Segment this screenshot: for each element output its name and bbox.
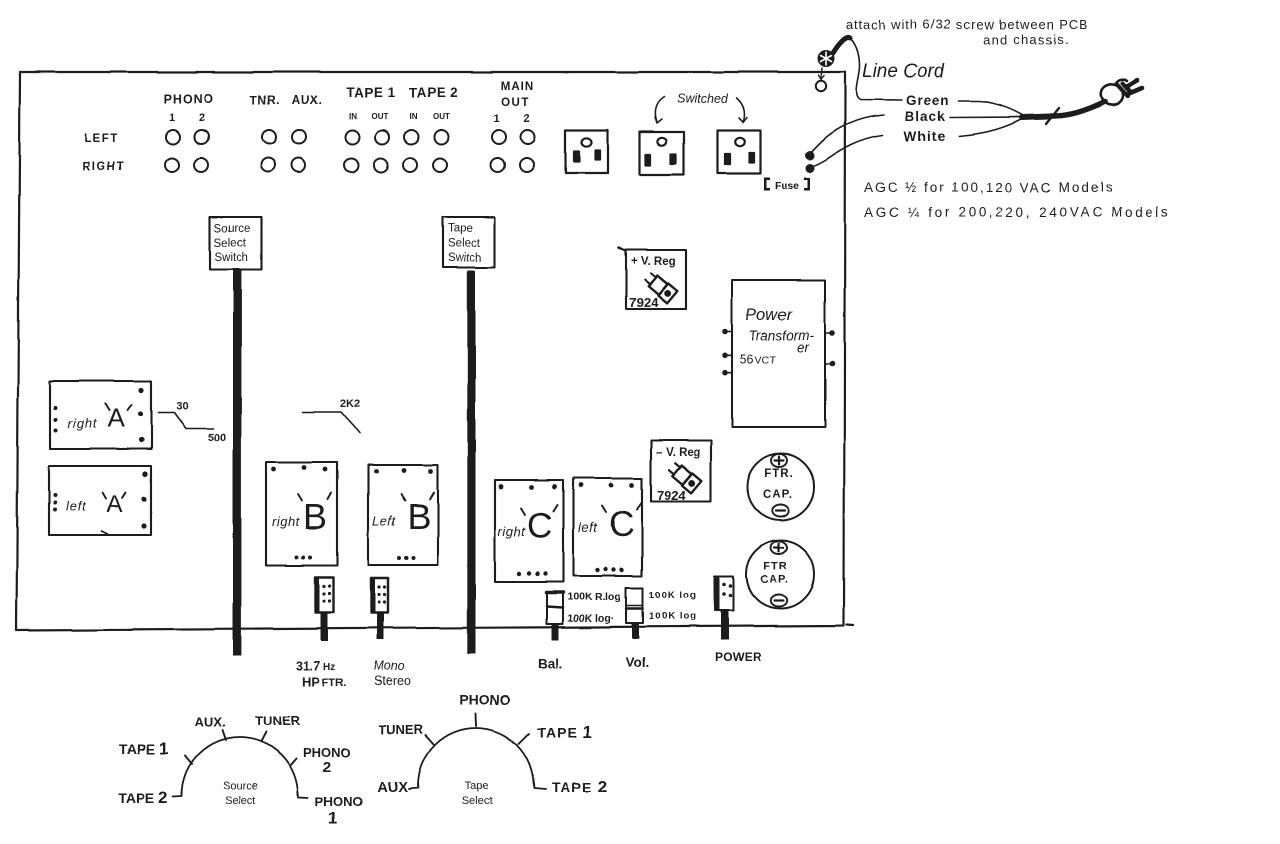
resistor 2K2 jumper: [303, 412, 360, 433]
tape dial tick TAPE 1: [519, 734, 529, 744]
svg-text:Fuse: Fuse: [775, 180, 800, 192]
green wire to cord junction: [959, 101, 1024, 116]
svg-text:IN: IN: [349, 112, 357, 121]
svg-text:TAPE 1: TAPE 1: [346, 85, 395, 100]
terminal dot upper (black wire): [805, 151, 814, 160]
source dial labels: [118, 713, 362, 828]
balance pot: [546, 592, 563, 624]
svg-text:right: right: [68, 416, 98, 431]
PCB right A: [50, 381, 151, 449]
balance pot shaft: [552, 624, 559, 640]
jack label AUX.: [292, 93, 323, 107]
tape select dial arc: [418, 728, 534, 786]
svg-text:TAPE 2: TAPE 2: [408, 85, 457, 100]
svg-text:AUX.: AUX.: [194, 714, 225, 729]
Switched label and arrows: [677, 92, 729, 106]
svg-text:Source: Source: [214, 223, 250, 235]
svg-text:FTR: FTR: [764, 561, 788, 573]
svg-text:– V. Reg: – V. Reg: [656, 447, 700, 459]
wire label White: [904, 129, 946, 144]
AC outlet 2 (switched): [640, 132, 685, 175]
svg-text:MAIN: MAIN: [501, 81, 534, 93]
PCB left A: [49, 466, 151, 535]
svg-text:+ V. Reg: + V. Reg: [631, 256, 676, 268]
svg-text:attach with 6/32 screw between: attach with 6/32 screw between PCB: [846, 17, 1088, 32]
filter capacitor 1: [747, 454, 814, 521]
svg-text:Black: Black: [905, 109, 946, 124]
svg-text:FTR.: FTR.: [322, 677, 346, 689]
source select shaft: [233, 270, 241, 656]
jack label TAPE1: [346, 85, 395, 121]
svg-text:100K log: 100K log: [649, 590, 697, 601]
source dial tick TAPE 1: [186, 756, 193, 765]
svg-text:A: A: [107, 403, 125, 433]
svg-text:TUNER: TUNER: [378, 722, 423, 737]
svg-text:and chassis.: and chassis.: [983, 32, 1070, 47]
svg-text:1: 1: [328, 809, 337, 828]
svg-text:OUT: OUT: [433, 112, 450, 121]
svg-text:PHONO: PHONO: [303, 745, 351, 760]
svg-text:White: White: [904, 129, 946, 144]
svg-text:AUX: AUX: [377, 780, 408, 796]
svg-text:Mono: Mono: [373, 659, 404, 673]
balance pot labels: [538, 591, 621, 671]
source select switch box: [210, 217, 262, 270]
svg-text:1: 1: [169, 112, 175, 124]
svg-text:500: 500: [208, 432, 226, 444]
svg-text:Switch: Switch: [448, 253, 482, 265]
wire label Black: [905, 109, 946, 124]
black wire to terminal: [810, 115, 885, 154]
svg-text:7924: 7924: [629, 295, 659, 310]
power switch: [715, 577, 734, 611]
fuse label: [764, 178, 810, 193]
PCB left C: [573, 478, 642, 576]
svg-text:2: 2: [524, 113, 530, 125]
jack label TNR.: [250, 93, 280, 107]
svg-text:TAPE 1: TAPE 1: [537, 723, 593, 742]
svg-text:left: left: [66, 499, 87, 514]
svg-text:OUT: OUT: [502, 97, 531, 109]
svg-text:FTR.: FTR.: [764, 468, 794, 480]
svg-text:RIGHT: RIGHT: [82, 161, 125, 173]
source dial tick AUX: [223, 730, 227, 740]
svg-text:right: right: [498, 524, 527, 539]
source select dial arc: [182, 737, 298, 795]
AC plug: [1101, 80, 1142, 105]
svg-text:IN: IN: [409, 112, 417, 121]
mono/stereo shaft: [377, 613, 384, 640]
svg-text:Tape: Tape: [465, 780, 489, 792]
jack label PHONO: [164, 92, 215, 124]
regulator symbol (TO-220): [643, 271, 678, 304]
PCB right C: [495, 480, 563, 582]
svg-text:er: er: [797, 340, 810, 355]
cord break slash: [1046, 108, 1059, 124]
AC outlet 3 (switched): [718, 131, 761, 174]
HP filter shaft: [321, 613, 328, 642]
black wire to cord junction: [950, 116, 1024, 119]
svg-text:AGC ¼ for 200,220, 240VAC Mode: AGC ¼ for 200,220, 240VAC Models: [864, 205, 1171, 220]
row label RIGHT: [82, 161, 125, 173]
svg-text:100K log: 100K log: [649, 611, 697, 622]
HP filter slide switch: [316, 577, 334, 613]
Line Cord label: [862, 61, 946, 82]
svg-text:PHONO: PHONO: [315, 794, 363, 809]
HP filter label: [296, 659, 346, 689]
svg-text:2: 2: [323, 759, 331, 776]
mounting pad hole: [816, 81, 826, 91]
cord junction: [1022, 117, 1049, 118]
svg-text:Switch: Switch: [215, 252, 249, 264]
PCB left B: [368, 465, 438, 565]
svg-text:2: 2: [199, 112, 205, 124]
fuse note AGC line 2: [864, 205, 1171, 220]
regulator symbol (TO-220): [667, 461, 702, 494]
svg-text:C: C: [527, 507, 552, 546]
svg-text:Source: Source: [223, 780, 258, 792]
AC outlet 1: [565, 131, 608, 174]
transformer pins right: [825, 333, 831, 364]
arrow screw to pad: [819, 68, 825, 80]
svg-text:CAP.: CAP.: [761, 574, 790, 586]
transformer pins left: [726, 332, 732, 373]
svg-text:right: right: [272, 514, 301, 529]
volume pot shaft: [632, 623, 639, 639]
svg-text:Select: Select: [448, 238, 481, 250]
source dial tick TUNER: [262, 732, 267, 742]
jack label MAIN OUT: [494, 81, 535, 125]
svg-text:Vol.: Vol.: [625, 655, 649, 670]
svg-text:TUNER: TUNER: [256, 713, 301, 728]
svg-text:Switched: Switched: [677, 92, 729, 106]
svg-text:Green: Green: [906, 93, 950, 108]
svg-text:56: 56: [740, 352, 754, 366]
tape dial tick TUNER: [426, 736, 435, 746]
svg-text:B: B: [303, 496, 327, 537]
svg-text:HP: HP: [302, 674, 320, 689]
resistor 30/500 jumper: [158, 412, 213, 429]
chassis outline: [17, 72, 854, 631]
chassis screw: [818, 50, 835, 67]
svg-text:7924: 7924: [657, 488, 687, 503]
svg-text:31.7: 31.7: [296, 659, 320, 673]
svg-text:TAPE 1: TAPE 1: [119, 739, 169, 758]
svg-text:LEFT: LEFT: [84, 133, 119, 145]
svg-text:B: B: [407, 496, 431, 537]
svg-text:A: A: [107, 491, 123, 518]
line cord cable: [1051, 102, 1105, 117]
power label: [715, 650, 761, 664]
svg-text:Select: Select: [462, 795, 493, 807]
jack label TAPE2: [408, 85, 457, 121]
svg-text:left: left: [578, 520, 598, 535]
svg-text:POWER: POWER: [715, 650, 761, 664]
tape select switch box: [443, 217, 495, 268]
svg-text:TAPE 2: TAPE 2: [552, 777, 608, 796]
svg-text:OUT: OUT: [372, 112, 389, 121]
source dial tick PHONO 2: [290, 758, 297, 766]
power switch shaft: [721, 611, 729, 641]
positive voltage regulator box: [619, 248, 686, 311]
svg-text:CAP.: CAP.: [763, 489, 793, 501]
svg-text:Tape: Tape: [448, 223, 473, 235]
note: attach with screw: [846, 17, 1088, 47]
tape dial labels: [377, 692, 607, 807]
svg-text:Hz: Hz: [323, 662, 335, 673]
RCA jacks LEFT row: [166, 130, 535, 144]
svg-text:Select: Select: [214, 238, 247, 250]
terminal dot lower (white wire): [806, 164, 815, 173]
svg-text:VCT: VCT: [755, 354, 777, 366]
svg-text:30: 30: [176, 400, 188, 412]
mono/stereo label: [373, 659, 410, 688]
volume pot: [627, 588, 644, 623]
RCA jacks RIGHT row: [165, 158, 534, 172]
row label LEFT: [84, 133, 119, 145]
fuse note AGC line 1: [864, 180, 1114, 195]
filter capacitor 2: [747, 541, 815, 609]
white wire to cord junction: [959, 120, 1021, 137]
svg-text:Left: Left: [372, 513, 397, 528]
PCB right B: [266, 462, 337, 565]
svg-text:Stereo: Stereo: [374, 674, 411, 688]
svg-text:TNR.: TNR.: [250, 93, 280, 107]
svg-text:100K R.log: 100K R.log: [567, 591, 621, 603]
svg-text:AUX.: AUX.: [292, 93, 323, 107]
svg-text:Bal.: Bal.: [538, 656, 563, 671]
svg-text:PHONO: PHONO: [459, 692, 510, 708]
svg-text:2K2: 2K2: [340, 398, 360, 410]
svg-text:Power: Power: [746, 306, 794, 324]
green ground wire: [850, 38, 902, 100]
wire label Green: [906, 93, 950, 108]
tape select shaft: [467, 271, 475, 654]
svg-text:C: C: [609, 505, 634, 544]
svg-text:1: 1: [494, 113, 500, 125]
white wire to terminal: [810, 135, 883, 168]
mono/stereo slide switch: [371, 578, 388, 613]
svg-text:TAPE 2: TAPE 2: [118, 788, 168, 807]
svg-text:Select: Select: [225, 795, 256, 807]
svg-text:Line Cord: Line Cord: [862, 61, 946, 82]
tape dial tick PHONO: [475, 714, 478, 726]
power transformer: [722, 280, 835, 427]
svg-text:AGC ½ for 100,120 VAC Models: AGC ½ for 100,120 VAC Models: [864, 180, 1114, 195]
negative voltage regulator box: [651, 441, 711, 504]
svg-text:PHONO: PHONO: [164, 92, 215, 106]
volume pot labels: [625, 590, 697, 670]
svg-text:100K log·: 100K log·: [567, 613, 614, 625]
